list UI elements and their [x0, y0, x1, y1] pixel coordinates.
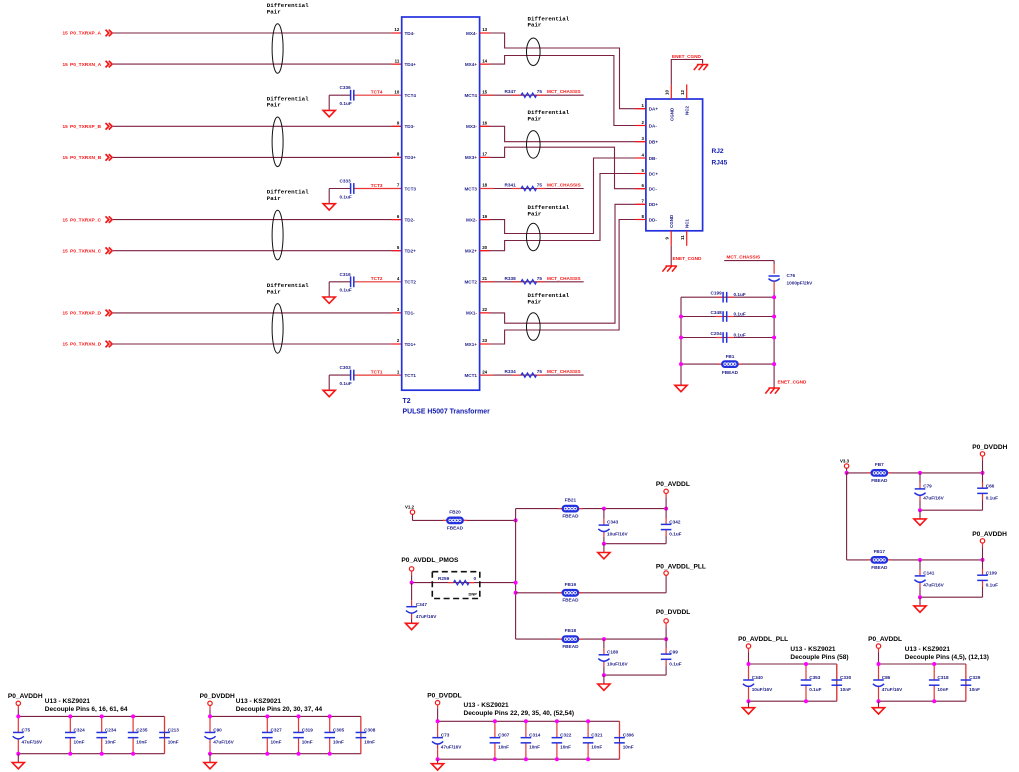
svg-text:C204: C204: [711, 331, 723, 336]
svg-text:14: 14: [482, 58, 487, 63]
svg-text:Decouple Pins (4,5), (12,13): Decouple Pins (4,5), (12,13): [905, 654, 989, 661]
svg-text:MCT_CHASSIS: MCT_CHASSIS: [727, 255, 761, 260]
svg-text:C305: C305: [333, 727, 345, 732]
svg-text:DC+: DC+: [649, 171, 659, 176]
svg-text:DA-: DA-: [649, 123, 658, 128]
svg-text:RJ45: RJ45: [712, 160, 728, 167]
svg-text:10nF: 10nF: [333, 739, 344, 744]
svg-text:DB-: DB-: [649, 156, 658, 161]
svg-text:C303: C303: [340, 365, 352, 370]
svg-text:C343: C343: [607, 520, 619, 525]
svg-text:P0_AVDDL_PLL: P0_AVDDL_PLL: [738, 636, 788, 643]
svg-text:15: 15: [63, 62, 69, 67]
svg-text:10nF: 10nF: [136, 739, 147, 744]
svg-text:0.1uF: 0.1uF: [734, 312, 746, 317]
svg-text:C180: C180: [607, 649, 619, 654]
svg-text:15: 15: [63, 124, 69, 129]
svg-text:MCT_CHASSIS: MCT_CHASSIS: [547, 183, 581, 188]
svg-text:MCT_CHASSIS: MCT_CHASSIS: [547, 276, 581, 281]
svg-text:P0_DVDDL: P0_DVDDL: [427, 692, 461, 699]
svg-text:U13 - KSZ9021: U13 - KSZ9021: [236, 698, 282, 705]
svg-text:C353: C353: [809, 675, 821, 680]
svg-text:10nF: 10nF: [623, 744, 634, 749]
svg-text:Pair: Pair: [528, 298, 542, 305]
svg-text:10nF: 10nF: [302, 739, 313, 744]
svg-text:P0_TXRXP_C: P0_TXRXP_C: [70, 217, 101, 223]
svg-text:47uF/16V: 47uF/16V: [22, 739, 43, 744]
svg-text:0.1uF: 0.1uF: [340, 288, 352, 293]
svg-text:C308: C308: [364, 727, 376, 732]
svg-text:21: 21: [482, 276, 487, 281]
svg-text:V3.3: V3.3: [840, 459, 850, 464]
svg-text:T2: T2: [403, 398, 411, 405]
svg-text:MX2+: MX2+: [465, 249, 477, 254]
svg-text:C86: C86: [882, 675, 891, 680]
svg-text:17: 17: [482, 152, 487, 157]
svg-text:FB1: FB1: [726, 354, 735, 359]
svg-text:MX2-: MX2-: [466, 217, 477, 222]
svg-text:10nF: 10nF: [560, 744, 571, 749]
svg-text:FB20: FB20: [449, 510, 461, 515]
svg-text:0.1uF: 0.1uF: [669, 532, 681, 537]
svg-text:C318: C318: [937, 675, 949, 680]
svg-text:CGND: CGND: [669, 214, 674, 228]
svg-text:C199: C199: [711, 291, 723, 296]
svg-text:23: 23: [482, 338, 487, 343]
svg-text:10uF/16V: 10uF/16V: [607, 532, 628, 537]
svg-text:0: 0: [474, 576, 477, 581]
svg-text:P0_TXRXP_B: P0_TXRXP_B: [70, 124, 101, 130]
svg-text:10nF: 10nF: [74, 739, 85, 744]
svg-text:10uF/16V: 10uF/16V: [607, 661, 628, 666]
svg-text:MCT1: MCT1: [464, 373, 477, 378]
svg-text:DD+: DD+: [649, 202, 659, 207]
svg-text:18: 18: [482, 183, 487, 188]
svg-text:1000pF/2kV: 1000pF/2kV: [787, 281, 814, 286]
svg-text:DD-: DD-: [649, 217, 658, 222]
svg-text:47uF/16V: 47uF/16V: [923, 495, 944, 500]
svg-text:P0_AVDDL: P0_AVDDL: [868, 636, 902, 643]
svg-text:0.1uF: 0.1uF: [340, 101, 352, 106]
svg-text:C333: C333: [340, 179, 352, 184]
svg-text:10nF: 10nF: [529, 744, 540, 749]
svg-text:Pair: Pair: [267, 102, 281, 109]
svg-text:CGND: CGND: [669, 107, 674, 121]
svg-text:24: 24: [482, 369, 487, 374]
svg-text:DA+: DA+: [649, 107, 659, 112]
svg-text:C306: C306: [623, 732, 635, 737]
svg-text:15: 15: [63, 248, 69, 253]
svg-text:C336: C336: [340, 85, 352, 90]
svg-text:V1.2: V1.2: [405, 504, 415, 509]
svg-text:DC-: DC-: [649, 187, 658, 192]
svg-text:MX4-: MX4-: [466, 31, 477, 36]
svg-text:ENET_CGND: ENET_CGND: [778, 380, 808, 385]
svg-text:C342: C342: [669, 520, 681, 525]
svg-text:U13 - KSZ9021: U13 - KSZ9021: [464, 702, 510, 709]
svg-text:10: 10: [394, 89, 399, 94]
svg-text:0.1uF: 0.1uF: [340, 194, 352, 199]
svg-text:22: 22: [482, 307, 487, 312]
svg-text:NC2: NC2: [685, 106, 690, 115]
svg-text:C99: C99: [669, 649, 678, 654]
svg-text:P0_TXRXP_D: P0_TXRXP_D: [70, 311, 101, 317]
svg-text:47uF/16V: 47uF/16V: [923, 582, 944, 587]
svg-text:TCT4: TCT4: [371, 90, 383, 95]
svg-text:15: 15: [63, 311, 69, 316]
svg-text:RJ2: RJ2: [712, 148, 724, 155]
svg-text:MCT3: MCT3: [464, 186, 477, 191]
svg-text:R334: R334: [505, 369, 517, 374]
svg-text:Decouple Pins 6, 16, 61, 64: Decouple Pins 6, 16, 61, 64: [45, 706, 128, 713]
svg-text:P0_AVDDH: P0_AVDDH: [972, 531, 1007, 538]
svg-text:Pair: Pair: [528, 115, 542, 122]
svg-text:13: 13: [482, 27, 487, 32]
svg-text:U13 - KSZ9021: U13 - KSZ9021: [45, 698, 91, 705]
svg-text:10nF: 10nF: [591, 744, 602, 749]
svg-text:C307: C307: [498, 732, 510, 737]
svg-text:TD4-: TD4-: [405, 31, 416, 36]
svg-text:15: 15: [63, 217, 69, 222]
svg-text:C66: C66: [986, 483, 995, 488]
svg-text:R338: R338: [505, 276, 517, 281]
svg-text:11: 11: [680, 235, 685, 240]
svg-text:P0_DVDDL: P0_DVDDL: [656, 609, 690, 616]
svg-text:15: 15: [63, 342, 69, 347]
svg-text:Decouple Pins (58): Decouple Pins (58): [790, 654, 848, 661]
svg-text:0.1uF: 0.1uF: [669, 661, 681, 666]
svg-text:10nF: 10nF: [498, 744, 509, 749]
svg-text:FBEAD: FBEAD: [871, 565, 888, 570]
svg-text:C141: C141: [923, 570, 935, 575]
svg-text:MX1-: MX1-: [466, 311, 477, 316]
svg-text:12: 12: [394, 27, 399, 32]
svg-text:FBEAD: FBEAD: [722, 370, 739, 375]
svg-text:FB7: FB7: [875, 462, 884, 467]
svg-text:TD4+: TD4+: [405, 62, 417, 67]
svg-text:DNP: DNP: [469, 592, 478, 597]
svg-text:15: 15: [63, 31, 69, 36]
svg-text:TCT2: TCT2: [371, 276, 383, 281]
svg-text:Pair: Pair: [528, 210, 542, 217]
svg-text:C314: C314: [529, 732, 541, 737]
svg-text:Pair: Pair: [267, 288, 281, 295]
svg-text:TD1+: TD1+: [405, 342, 417, 347]
svg-text:U13 - KSZ9021: U13 - KSZ9021: [790, 646, 836, 653]
svg-text:C319: C319: [302, 727, 314, 732]
svg-text:MX3+: MX3+: [465, 155, 477, 160]
svg-text:10uF/16V: 10uF/16V: [752, 687, 773, 692]
svg-text:TCT1: TCT1: [405, 373, 417, 378]
svg-text:C73: C73: [441, 732, 450, 737]
svg-text:U13 - KSZ9021: U13 - KSZ9021: [905, 646, 951, 653]
svg-text:TCT3: TCT3: [371, 183, 383, 188]
svg-text:C322: C322: [560, 732, 572, 737]
svg-text:NC1: NC1: [685, 219, 690, 228]
svg-text:47uF/16V: 47uF/16V: [416, 614, 437, 619]
svg-text:FBEAD: FBEAD: [562, 514, 579, 519]
svg-text:C329: C329: [969, 675, 981, 680]
svg-text:0.1uF: 0.1uF: [986, 582, 998, 587]
svg-text:MX4+: MX4+: [465, 62, 477, 67]
svg-text:C79: C79: [923, 483, 932, 488]
svg-text:ENET_CGND: ENET_CGND: [672, 54, 702, 59]
svg-text:15: 15: [482, 89, 487, 94]
svg-text:C76: C76: [787, 273, 796, 278]
svg-text:10nF: 10nF: [168, 739, 179, 744]
svg-text:P0_TXRXN_B: P0_TXRXN_B: [70, 155, 102, 161]
svg-text:FBEAD: FBEAD: [447, 525, 464, 530]
svg-text:FB21: FB21: [565, 498, 577, 503]
svg-text:C90: C90: [213, 727, 222, 732]
svg-text:TD3+: TD3+: [405, 155, 417, 160]
svg-text:10nF: 10nF: [969, 687, 980, 692]
svg-text:10nF: 10nF: [364, 739, 375, 744]
svg-text:0.1uF: 0.1uF: [734, 333, 746, 338]
svg-text:MCT_CHASSIS: MCT_CHASSIS: [547, 369, 581, 374]
svg-text:C340: C340: [752, 675, 764, 680]
svg-text:C75: C75: [22, 727, 31, 732]
svg-text:C316: C316: [340, 272, 352, 277]
svg-text:Decouple Pins 20, 30, 37, 44: Decouple Pins 20, 30, 37, 44: [236, 706, 323, 713]
svg-text:0.1uF: 0.1uF: [809, 687, 821, 692]
svg-text:MCT_CHASSIS: MCT_CHASSIS: [547, 89, 581, 94]
svg-text:10nF: 10nF: [105, 739, 116, 744]
svg-text:10nF: 10nF: [937, 687, 948, 692]
svg-text:75: 75: [537, 89, 543, 94]
svg-text:TCT1: TCT1: [371, 370, 383, 375]
svg-text:TCT2: TCT2: [405, 280, 417, 285]
svg-text:FBEAD: FBEAD: [562, 598, 579, 603]
svg-text:C109: C109: [986, 570, 998, 575]
svg-text:MCT2: MCT2: [464, 280, 477, 285]
svg-text:19: 19: [482, 214, 487, 219]
svg-text:Pair: Pair: [528, 22, 542, 29]
svg-text:MCT4: MCT4: [464, 93, 477, 98]
svg-text:11: 11: [395, 58, 400, 63]
svg-text:P0_TXRXN_D: P0_TXRXN_D: [70, 342, 102, 348]
svg-text:12: 12: [680, 90, 685, 95]
svg-text:16: 16: [482, 121, 487, 126]
svg-text:P0_AVDDL_PLL: P0_AVDDL_PLL: [656, 563, 706, 570]
svg-text:20: 20: [482, 245, 487, 250]
svg-text:MX3-: MX3-: [466, 124, 477, 129]
svg-text:TCT3: TCT3: [405, 186, 417, 191]
svg-text:TD2+: TD2+: [405, 249, 417, 254]
svg-text:15: 15: [63, 155, 69, 160]
svg-text:75: 75: [537, 183, 543, 188]
svg-text:0.1uF: 0.1uF: [340, 381, 352, 386]
svg-text:C213: C213: [168, 727, 180, 732]
svg-text:75: 75: [537, 369, 543, 374]
svg-text:P0_DVDDH: P0_DVDDH: [200, 693, 235, 700]
svg-text:Pair: Pair: [267, 195, 281, 202]
svg-text:Decouple Pins 22, 29, 35, 40,: Decouple Pins 22, 29, 35, 40, (52,54): [464, 710, 575, 717]
svg-text:R347: R347: [505, 89, 517, 94]
svg-text:ENET_CGND: ENET_CGND: [673, 256, 703, 261]
svg-text:C321: C321: [591, 732, 603, 737]
svg-text:FB18: FB18: [565, 628, 577, 633]
svg-text:R259: R259: [438, 576, 450, 581]
svg-text:P0_TXRXP_A: P0_TXRXP_A: [70, 31, 101, 37]
svg-text:P0_TXRXN_C: P0_TXRXN_C: [70, 248, 102, 254]
svg-text:R341: R341: [505, 183, 517, 188]
svg-text:47uF/16V: 47uF/16V: [441, 744, 462, 749]
svg-text:C347: C347: [416, 602, 428, 607]
svg-text:P0_DVDDH: P0_DVDDH: [972, 444, 1007, 451]
svg-text:0.1uF: 0.1uF: [734, 292, 746, 297]
svg-text:C234: C234: [105, 727, 117, 732]
svg-text:75: 75: [537, 276, 543, 281]
svg-text:TD2-: TD2-: [405, 217, 416, 222]
svg-text:P0_AVDDL: P0_AVDDL: [656, 481, 690, 488]
svg-text:TCT4: TCT4: [405, 93, 417, 98]
svg-text:10nF: 10nF: [271, 739, 282, 744]
svg-text:FB19: FB19: [565, 582, 577, 587]
svg-text:PULSE H5007 Transformer: PULSE H5007 Transformer: [403, 409, 491, 416]
svg-text:DB+: DB+: [649, 140, 659, 145]
svg-text:0.1uF: 0.1uF: [986, 495, 998, 500]
svg-text:C327: C327: [271, 727, 283, 732]
svg-text:10nF: 10nF: [840, 687, 851, 692]
svg-text:C324: C324: [74, 727, 86, 732]
svg-text:FB17: FB17: [874, 549, 886, 554]
svg-text:P0_AVDDH: P0_AVDDH: [8, 693, 43, 700]
svg-text:P0_TXRXN_A: P0_TXRXN_A: [70, 62, 102, 68]
svg-text:C348: C348: [711, 310, 723, 315]
svg-text:TD3-: TD3-: [405, 124, 416, 129]
svg-text:FBEAD: FBEAD: [871, 478, 888, 483]
svg-text:C235: C235: [136, 727, 148, 732]
svg-text:P0_AVDDL_PMOS: P0_AVDDL_PMOS: [401, 557, 459, 564]
svg-text:MX1+: MX1+: [465, 342, 477, 347]
svg-text:10: 10: [665, 90, 670, 95]
svg-text:47uF/16V: 47uF/16V: [213, 739, 234, 744]
svg-text:47uF/16V: 47uF/16V: [882, 687, 903, 692]
svg-text:TD1-: TD1-: [405, 311, 416, 316]
svg-text:Pair: Pair: [267, 8, 281, 15]
svg-text:FBEAD: FBEAD: [562, 644, 579, 649]
svg-text:C330: C330: [840, 675, 852, 680]
